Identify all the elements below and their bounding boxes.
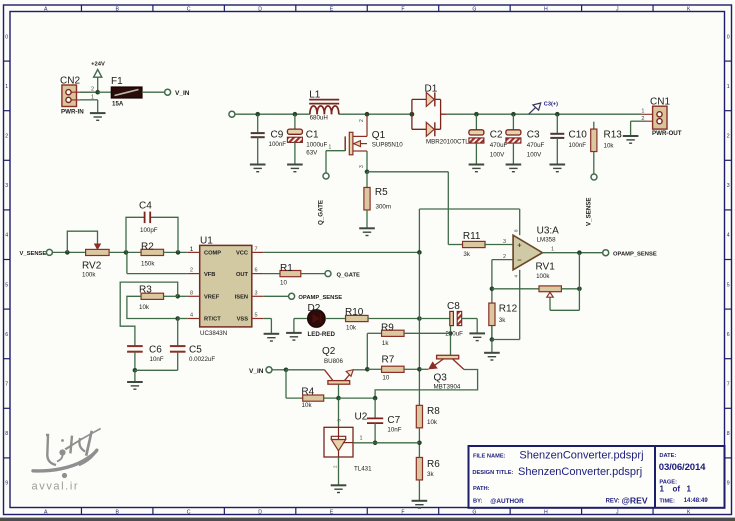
svg-text:470uF: 470uF	[527, 142, 545, 149]
svg-text:ShenzenConverter.pdsprj: ShenzenConverter.pdsprj	[518, 466, 642, 478]
svg-text:TL431: TL431	[354, 466, 372, 473]
svg-text:2: 2	[641, 116, 644, 122]
svg-text:100V: 100V	[527, 152, 542, 159]
svg-text:V_SENSE: V_SENSE	[586, 197, 593, 226]
svg-text:Q1: Q1	[372, 130, 386, 141]
svg-text:15A: 15A	[112, 101, 124, 108]
svg-text:K: K	[687, 509, 691, 515]
svg-text:R7: R7	[382, 355, 395, 366]
svg-text:J: J	[616, 509, 619, 515]
svg-text:6: 6	[5, 332, 8, 338]
svg-text:5: 5	[5, 282, 8, 288]
svg-text:PWR-IN: PWR-IN	[61, 109, 84, 116]
svg-text:1: 1	[687, 485, 692, 494]
svg-text:0: 0	[727, 34, 730, 40]
svg-text:7: 7	[255, 246, 258, 252]
svg-text:G: G	[472, 509, 476, 515]
svg-text:7: 7	[727, 382, 730, 388]
svg-text:3: 3	[727, 183, 730, 189]
svg-text:C7: C7	[387, 415, 400, 426]
svg-text:1: 1	[329, 145, 332, 151]
svg-text:VREF: VREF	[204, 295, 220, 301]
svg-text:8: 8	[727, 431, 730, 437]
svg-text:K: K	[687, 6, 691, 12]
svg-text:LM358: LM358	[537, 237, 556, 244]
svg-text:V_IN: V_IN	[175, 90, 190, 97]
svg-text:5: 5	[255, 313, 258, 319]
svg-text:+24V: +24V	[91, 62, 105, 68]
svg-text:100pF: 100pF	[140, 227, 158, 234]
svg-text:100nF: 100nF	[569, 142, 587, 149]
svg-text:VFB: VFB	[204, 272, 215, 278]
svg-text:R10: R10	[345, 307, 364, 318]
svg-text:0.0022uF: 0.0022uF	[189, 356, 215, 363]
svg-text:6: 6	[727, 332, 730, 338]
svg-text:10k: 10k	[604, 143, 615, 150]
svg-text:8: 8	[514, 229, 519, 232]
svg-text:L1: L1	[309, 89, 321, 100]
svg-text:RV2: RV2	[82, 260, 102, 271]
svg-text:R3: R3	[139, 285, 152, 296]
svg-text:10k: 10k	[302, 402, 313, 409]
svg-text:COMP: COMP	[204, 251, 221, 257]
svg-text:2: 2	[727, 134, 730, 140]
svg-text:100k: 100k	[536, 273, 550, 280]
svg-text:4: 4	[514, 275, 519, 278]
svg-text:3k: 3k	[463, 251, 470, 258]
svg-text:C: C	[187, 509, 191, 515]
svg-text:1: 1	[5, 84, 8, 90]
svg-text:3: 3	[255, 290, 258, 296]
svg-text:BU806: BU806	[324, 358, 343, 365]
svg-text:7: 7	[5, 382, 8, 388]
svg-text:2: 2	[5, 134, 8, 140]
svg-text:10nF: 10nF	[387, 427, 401, 434]
svg-text:10: 10	[382, 375, 389, 382]
svg-text:4: 4	[5, 233, 8, 239]
svg-text:C9: C9	[271, 130, 284, 141]
svg-text:1k: 1k	[382, 340, 389, 347]
svg-text:V_SENSE: V_SENSE	[20, 251, 47, 257]
svg-text:C2: C2	[490, 129, 503, 140]
svg-text:U2: U2	[355, 412, 368, 423]
svg-text:E: E	[330, 6, 334, 12]
svg-text:R13: R13	[604, 130, 623, 141]
svg-text:1: 1	[660, 485, 665, 494]
svg-text:220uF: 220uF	[445, 331, 463, 338]
svg-text:OPAMP_SENSE: OPAMP_SENSE	[613, 252, 657, 258]
svg-text:9: 9	[727, 481, 730, 487]
svg-text:2: 2	[359, 119, 365, 122]
svg-text:10k: 10k	[427, 419, 438, 426]
svg-text:100nF: 100nF	[269, 141, 287, 148]
svg-text:R5: R5	[375, 187, 388, 198]
svg-text:MBT3904: MBT3904	[434, 384, 461, 391]
svg-text:R6: R6	[427, 459, 440, 470]
svg-text:A: A	[44, 6, 48, 12]
svg-text:TIME:: TIME:	[659, 498, 675, 504]
svg-text:SUP85N10: SUP85N10	[372, 141, 404, 148]
svg-text:D1: D1	[425, 84, 438, 95]
svg-text:3: 3	[5, 183, 8, 189]
svg-text:10nF: 10nF	[150, 356, 164, 363]
svg-text:C3: C3	[527, 129, 540, 140]
svg-text:Q3: Q3	[434, 373, 448, 384]
svg-text:3k: 3k	[427, 471, 434, 478]
svg-text:8: 8	[190, 290, 193, 296]
svg-text:8: 8	[5, 431, 8, 437]
svg-text:A: A	[44, 509, 48, 515]
svg-text:R1: R1	[280, 263, 293, 274]
svg-text:BY:: BY:	[473, 499, 482, 505]
svg-text:4: 4	[727, 233, 730, 239]
svg-text:J: J	[616, 6, 619, 12]
svg-text:R8: R8	[427, 406, 440, 417]
svg-text:E: E	[330, 509, 334, 515]
svg-text:2: 2	[190, 268, 193, 274]
svg-text:R11: R11	[463, 231, 481, 242]
svg-text:3: 3	[337, 419, 342, 422]
svg-text:REV:: REV:	[606, 499, 620, 505]
svg-text:C6: C6	[149, 345, 162, 356]
svg-text:RV1: RV1	[536, 262, 556, 273]
svg-text:R12: R12	[499, 304, 518, 315]
svg-text:U3:A: U3:A	[537, 226, 560, 237]
svg-text:6: 6	[255, 268, 258, 274]
svg-text:FILE NAME:: FILE NAME:	[473, 453, 506, 459]
svg-text:VCC: VCC	[236, 251, 248, 257]
svg-text:1: 1	[91, 95, 94, 101]
svg-text:C4: C4	[139, 201, 152, 212]
svg-text:3k: 3k	[499, 317, 506, 324]
svg-text:F: F	[401, 509, 404, 515]
svg-text:0: 0	[5, 34, 8, 40]
svg-text:avval.ir: avval.ir	[32, 480, 80, 492]
svg-text:2: 2	[91, 87, 94, 93]
svg-text:+: +	[517, 241, 522, 250]
svg-text:100V: 100V	[490, 152, 505, 159]
svg-text:1: 1	[551, 247, 554, 253]
svg-text:H: H	[544, 6, 548, 12]
svg-text:Q_GATE: Q_GATE	[318, 200, 325, 225]
svg-text:RT/CT: RT/CT	[204, 317, 221, 323]
svg-text:14:48:49: 14:48:49	[684, 498, 709, 504]
svg-text:ISEN: ISEN	[235, 295, 248, 301]
svg-text:470uF: 470uF	[490, 142, 508, 149]
svg-text:1: 1	[727, 84, 730, 90]
svg-text:D2: D2	[308, 303, 321, 314]
svg-text:300m: 300m	[376, 204, 391, 211]
svg-text:H: H	[544, 509, 548, 515]
svg-text:C8: C8	[447, 301, 460, 312]
svg-text:−: −	[517, 256, 522, 265]
svg-text:PWR-OUT: PWR-OUT	[652, 130, 682, 137]
svg-text:OPAMP_SENSE: OPAMP_SENSE	[298, 295, 342, 301]
svg-text:B: B	[115, 509, 119, 515]
svg-text:5: 5	[727, 282, 730, 288]
svg-text:R2: R2	[141, 241, 154, 252]
svg-text:DESIGN TITLE:: DESIGN TITLE:	[472, 470, 513, 476]
svg-text:03/06/2014: 03/06/2014	[659, 462, 706, 473]
svg-text:B: B	[115, 6, 119, 12]
svg-text:100k: 100k	[82, 271, 96, 278]
svg-text:1: 1	[641, 109, 644, 115]
svg-text:10: 10	[280, 280, 287, 287]
svg-text:MBR20100CTL: MBR20100CTL	[426, 139, 469, 146]
svg-text:2: 2	[503, 254, 506, 260]
svg-text:U1: U1	[200, 236, 213, 247]
svg-text:@REV: @REV	[622, 495, 648, 505]
svg-text:63V: 63V	[306, 149, 318, 156]
svg-text:Q_GATE: Q_GATE	[337, 272, 361, 278]
svg-text:OUT: OUT	[236, 272, 249, 278]
svg-text:680uH: 680uH	[310, 115, 328, 122]
svg-text:LED-RED: LED-RED	[308, 331, 336, 338]
svg-text:R4: R4	[301, 387, 314, 398]
svg-text:F1: F1	[111, 76, 123, 87]
svg-text:G: G	[472, 6, 476, 12]
svg-text:10k: 10k	[139, 304, 150, 311]
svg-text:DATE:: DATE:	[659, 453, 676, 459]
svg-text:3: 3	[359, 165, 365, 168]
svg-text:PATH:: PATH:	[473, 486, 490, 492]
svg-text:Q2: Q2	[322, 346, 336, 357]
svg-text:1: 1	[360, 435, 363, 441]
svg-text:C5: C5	[189, 345, 202, 356]
svg-text:150k: 150k	[141, 260, 155, 267]
svg-text:C10: C10	[569, 130, 588, 141]
svg-text:C: C	[187, 6, 191, 12]
svg-text:F: F	[401, 6, 404, 12]
svg-text:3: 3	[503, 239, 506, 245]
svg-text:R9: R9	[381, 323, 394, 334]
svg-text:V_IN: V_IN	[249, 368, 264, 375]
svg-text:C1: C1	[306, 129, 319, 140]
svg-text:1000uF: 1000uF	[306, 141, 327, 148]
svg-text:9: 9	[5, 481, 8, 487]
svg-text:ShenzenConverter.pdsprj: ShenzenConverter.pdsprj	[519, 450, 643, 462]
svg-text:4: 4	[190, 313, 193, 319]
svg-text:10k: 10k	[346, 325, 357, 332]
svg-text:2: 2	[333, 465, 338, 468]
svg-text:D: D	[258, 6, 262, 12]
svg-text:C3(+): C3(+)	[544, 102, 558, 108]
svg-text:of: of	[673, 485, 681, 494]
svg-text:D: D	[258, 509, 262, 515]
svg-text:UC3843N: UC3843N	[200, 330, 227, 337]
svg-text:@AUTHOR: @AUTHOR	[490, 498, 524, 505]
svg-text:VSS: VSS	[237, 317, 249, 323]
svg-text:1: 1	[190, 247, 193, 253]
